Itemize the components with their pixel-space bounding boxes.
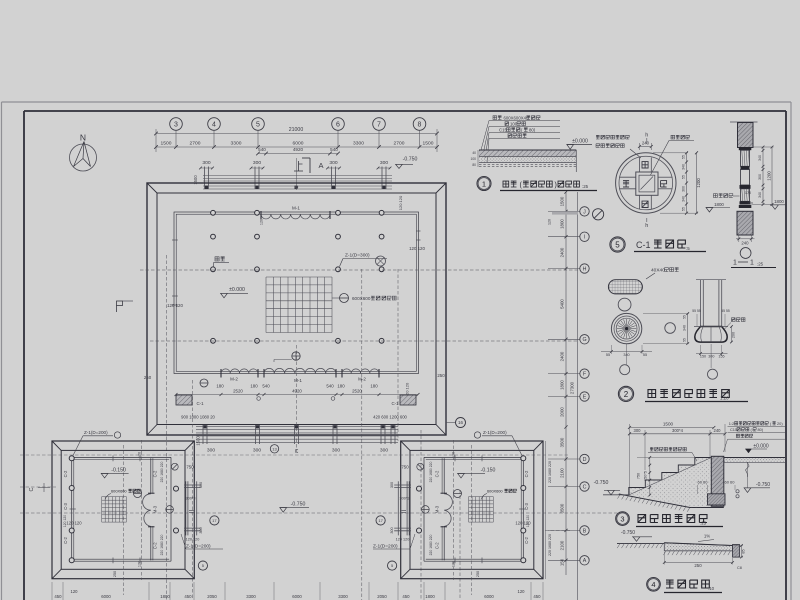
svg-text:120 120: 120 120 — [526, 515, 530, 527]
svg-text:250: 250 — [113, 571, 117, 577]
svg-text:3500: 3500 — [559, 503, 564, 513]
grid bubble E — [548, 396, 580, 398]
grid bubble H — [548, 268, 580, 270]
svg-text:220 1680 220: 220 1680 220 — [548, 461, 552, 483]
svg-text:5400: 5400 — [559, 299, 564, 309]
column 1-1 labels — [714, 194, 733, 198]
svg-text:300: 300 — [332, 448, 340, 454]
svg-text:-0.150: -0.150 — [111, 468, 126, 474]
column base label 柱础 — [215, 257, 225, 261]
svg-text:17: 17 — [212, 518, 217, 523]
wall section at grid J — [552, 211, 578, 214]
pavilion podium corner miters — [52, 441, 61, 450]
step detail dim row2 — [630, 433, 726, 435]
svg-text:450: 450 — [184, 594, 192, 599]
svg-text:1800: 1800 — [714, 202, 724, 207]
svg-text:120 120: 120 120 — [167, 303, 183, 308]
pavilion tag circle — [134, 490, 142, 498]
svg-text:540: 540 — [326, 384, 334, 389]
paving tag circle and label — [332, 297, 340, 299]
pavilion wall ticks — [481, 456, 483, 462]
svg-text:-0.750: -0.750 — [403, 157, 418, 163]
svg-text:250: 250 — [437, 373, 445, 378]
column 1-1 black band a — [739, 147, 752, 150]
svg-text:55: 55 — [683, 338, 687, 342]
pavilion podium outer edge — [52, 441, 194, 579]
svg-text:6000: 6000 — [101, 594, 111, 599]
apron dim 85 — [741, 546, 743, 558]
svg-text:60 60: 60 60 — [697, 480, 708, 485]
svg-text:±0.000: ±0.000 — [229, 287, 245, 293]
step platform strip — [724, 458, 785, 463]
pavilion tag circles outside — [417, 463, 424, 470]
svg-text:C: C — [295, 449, 299, 455]
pile symbol circle — [376, 256, 386, 266]
svg-text:150: 150 — [700, 355, 706, 359]
step ground left — [603, 494, 629, 496]
svg-text:C-3: C-3 — [524, 502, 529, 509]
tag circle 13 — [270, 445, 278, 453]
svg-text:2400: 2400 — [559, 351, 564, 361]
main hall wall outer line — [174, 212, 419, 374]
coin callout right text — [671, 135, 689, 139]
svg-text:17: 17 — [378, 518, 383, 523]
svg-text:55 55: 55 55 — [692, 309, 701, 313]
svg-text:55: 55 — [681, 175, 685, 179]
bottom door scallops M-1 center — [264, 368, 336, 373]
up symbol — [294, 170, 303, 172]
detail 1 title underline — [500, 190, 597, 192]
column 1-1 textured segment a — [741, 150, 750, 166]
svg-text:1200: 1200 — [696, 178, 701, 188]
svg-text:Z-1(D=200): Z-1(D=200) — [84, 430, 108, 435]
pavilion wall bottom — [72, 560, 171, 562]
coin inner circle — [619, 156, 673, 210]
pavilion podium outer edge — [401, 441, 543, 579]
svg-text:540: 540 — [330, 147, 338, 152]
svg-text:1: 1 — [733, 260, 737, 267]
svg-text:240: 240 — [714, 428, 722, 433]
detail 2 title text — [648, 390, 729, 398]
svg-text:340: 340 — [758, 155, 762, 161]
north arrow symbol — [70, 144, 97, 171]
bottom dim line — [176, 394, 418, 396]
svg-text:420 600 1200 600: 420 600 1200 600 — [373, 415, 407, 420]
grid bubble 16 right of podium — [446, 422, 456, 424]
bottom door scallops M-2 left — [221, 369, 258, 374]
column 1-1 top cap line — [730, 121, 758, 123]
grid bubble 5 — [252, 118, 265, 131]
coin vertical band — [639, 158, 641, 173]
grid bubble A — [548, 559, 580, 561]
pavilion tag circle — [454, 490, 462, 498]
svg-text:E: E — [583, 394, 587, 400]
detail 5 title bubble — [610, 237, 625, 252]
grid dash verticals main — [166, 255, 168, 600]
svg-text:6000: 6000 — [292, 594, 302, 599]
pavilion podium corner miters — [534, 441, 543, 450]
svg-text:120: 120 — [452, 561, 456, 567]
svg-text:27300: 27300 — [570, 381, 575, 394]
svg-text:M-1: M-1 — [294, 378, 302, 383]
svg-text:85: 85 — [742, 549, 746, 553]
stair nose diagonal — [629, 458, 712, 496]
svg-text:-0.750: -0.750 — [291, 501, 306, 507]
pavilion 2 (right) — [394, 440, 543, 595]
svg-text:250: 250 — [476, 571, 480, 577]
svg-text:): ) — [555, 182, 557, 189]
svg-text:240: 240 — [642, 141, 650, 146]
svg-text:G: G — [582, 337, 586, 343]
column 1-1 black band c — [740, 185, 751, 189]
svg-text:2050: 2050 — [207, 594, 217, 599]
dimension 540-4920-540 for door — [258, 153, 338, 155]
svg-text:450: 450 — [533, 594, 541, 599]
pavilion 1 (left) — [52, 440, 201, 595]
svg-text:300: 300 — [199, 482, 203, 488]
svg-text:1: 1 — [750, 260, 754, 267]
svg-text:D: D — [583, 457, 587, 463]
bottom extension lines — [51, 582, 53, 600]
svg-text::25: :25 — [757, 262, 764, 267]
svg-text:300: 300 — [758, 174, 762, 180]
svg-text:C-2: C-2 — [524, 470, 529, 477]
svg-text:4920: 4920 — [293, 147, 304, 152]
svg-text:80: 80 — [472, 163, 476, 167]
column 1-1 right dim chain — [762, 147, 764, 205]
svg-text:40X40: 40X40 — [651, 268, 665, 274]
svg-text:180: 180 — [250, 384, 258, 389]
svg-text:Z-1(D=200): Z-1(D=200) — [483, 430, 507, 435]
svg-text:900 1000 1080 20: 900 1000 1080 20 — [181, 415, 215, 420]
svg-text:2520: 2520 — [352, 389, 362, 394]
svg-text:540: 540 — [258, 147, 266, 152]
svg-text:4920: 4920 — [292, 389, 302, 394]
svg-text:Z-1(D=200): Z-1(D=200) — [186, 544, 211, 550]
svg-text:2000: 2000 — [559, 407, 564, 417]
pavilion door wall right — [150, 458, 152, 494]
svg-text:13: 13 — [272, 447, 277, 452]
center axis line of main hall — [296, 158, 298, 190]
svg-text:300: 300 — [253, 160, 261, 166]
svg-text:6: 6 — [336, 122, 340, 129]
grid bubble C — [548, 486, 580, 488]
svg-text:2050: 2050 — [377, 594, 387, 599]
svg-text:300: 300 — [202, 160, 210, 166]
svg-text:120 120: 120 120 — [63, 515, 67, 527]
svg-text:6000: 6000 — [293, 141, 304, 147]
svg-text:8: 8 — [418, 122, 422, 129]
svg-text:1200: 1200 — [767, 171, 772, 181]
svg-text:1800: 1800 — [160, 594, 170, 599]
detail 5 title underline — [634, 251, 706, 253]
pavilion colonnade line right — [170, 457, 172, 561]
pavilion column circles — [521, 456, 526, 461]
svg-text:J: J — [583, 209, 586, 215]
base dim below 150 300 155 — [696, 353, 728, 355]
svg-text:750: 750 — [401, 465, 409, 470]
svg-text:450: 450 — [54, 594, 62, 599]
stair steps — [629, 458, 712, 496]
svg-text:300: 300 — [390, 527, 394, 533]
svg-text:-0.750: -0.750 — [756, 482, 770, 488]
svg-text:300*4: 300*4 — [672, 428, 684, 433]
svg-text:3300: 3300 — [353, 141, 364, 147]
pavilion wall top — [424, 456, 523, 458]
step footing hatch — [708, 494, 726, 505]
svg-text:2700: 2700 — [394, 141, 405, 147]
bottom railing post caps — [204, 425, 207, 428]
svg-text:1:2: 1:2 — [729, 421, 734, 426]
svg-text:55: 55 — [683, 315, 687, 319]
circle section below — [618, 298, 631, 311]
svg-text:100: 100 — [470, 157, 476, 161]
floor section strip — [479, 150, 576, 157]
grid bubble I — [548, 236, 580, 238]
svg-text:300: 300 — [380, 448, 388, 454]
column 1-1 bubble — [740, 248, 751, 259]
svg-text:-0.150: -0.150 — [481, 468, 496, 474]
door symbol circle bottom — [292, 352, 300, 360]
horizontal grid dashes lower area — [20, 486, 56, 488]
svg-text:H: H — [583, 266, 587, 272]
svg-text:80): 80) — [758, 427, 764, 432]
svg-text:2100: 2100 — [559, 468, 564, 478]
pavilion wall ticks — [112, 456, 114, 462]
pavilion level -0.150 — [458, 473, 465, 478]
svg-text:450: 450 — [402, 594, 410, 599]
detail 1 title text — [503, 181, 517, 187]
column 1-1 textured segment b — [741, 189, 750, 202]
svg-text:300*3: 300*3 — [186, 497, 196, 501]
svg-text:C-2: C-2 — [524, 536, 529, 543]
grid bubble 3 — [170, 118, 183, 131]
svg-text:C: C — [583, 484, 587, 490]
wall break ticks left wall — [172, 295, 178, 297]
door M-1 top scallops — [261, 214, 330, 219]
step level ±0.000 — [745, 448, 767, 450]
svg-text:180: 180 — [337, 384, 345, 389]
bubble below radial section — [620, 365, 630, 375]
tag circle 15 — [200, 379, 208, 387]
main hall podium outer edge — [147, 183, 446, 435]
svg-text:M-2: M-2 — [230, 377, 238, 382]
overall dimension 21000 — [156, 133, 437, 135]
corner pier C-1 left — [176, 395, 192, 405]
stair base — [619, 494, 724, 508]
step small circles right — [736, 490, 739, 493]
svg-text:120 120: 120 120 — [409, 246, 425, 251]
svg-text:4: 4 — [651, 580, 655, 589]
svg-text:120 120: 120 120 — [186, 538, 200, 542]
main hall podium inner edge — [157, 193, 436, 425]
svg-text:300: 300 — [329, 160, 337, 166]
slashed bubble near J — [593, 209, 604, 220]
railing post caps — [205, 186, 208, 189]
section marker A top — [302, 157, 310, 159]
svg-text:220 1680 220: 220 1680 220 — [429, 462, 433, 483]
svg-text:120 120: 120 120 — [396, 538, 410, 542]
svg-text:3300: 3300 — [231, 141, 242, 147]
svg-text:300: 300 — [380, 160, 388, 166]
step level -0.750 left — [608, 490, 615, 495]
pavilion paving grid — [492, 497, 494, 522]
svg-text:C8: C8 — [737, 566, 742, 570]
plain circle section — [665, 323, 676, 334]
svg-text:h: h — [645, 133, 648, 139]
column 1-1 level 1800 left — [706, 207, 730, 209]
svg-text:600X600X40: 600X600X40 — [504, 116, 529, 121]
column 1-1 black band d — [740, 201, 751, 204]
column 1-1 bottom block — [737, 211, 753, 235]
svg-text:1800: 1800 — [425, 594, 435, 599]
pavilion walkway right — [185, 481, 187, 535]
detail 4 title bubble — [647, 578, 661, 592]
pavilion podium inner edge — [61, 450, 185, 569]
step level -0.750 right — [747, 462, 749, 488]
svg-text:C-2: C-2 — [63, 536, 68, 543]
svg-text:C-1: C-1 — [196, 401, 204, 406]
svg-text:C: C — [29, 487, 35, 491]
step granite label — [650, 447, 686, 451]
step wall hatched — [711, 456, 724, 506]
svg-text:1500: 1500 — [423, 141, 434, 147]
svg-text:M-2: M-2 — [358, 377, 366, 382]
svg-text:110: 110 — [747, 202, 753, 206]
svg-text:5: 5 — [615, 241, 620, 250]
svg-text:1500: 1500 — [161, 141, 172, 147]
svg-text:300: 300 — [634, 428, 642, 433]
svg-text:C-3: C-3 — [63, 502, 68, 509]
svg-text:120: 120 — [71, 589, 79, 594]
svg-text:170: 170 — [745, 191, 751, 195]
step detail top dim 1500 — [630, 427, 714, 429]
detail 2 title underline — [645, 401, 748, 403]
svg-text:55: 55 — [681, 155, 685, 159]
floor label underlines — [489, 120, 560, 122]
corner pier C-1 right — [400, 395, 416, 405]
coin outer circle — [616, 153, 676, 213]
pavilion paving grid — [101, 497, 103, 522]
main hall wall inner line — [176, 214, 416, 371]
svg-text:80): 80) — [529, 128, 536, 133]
pavilion column circles — [69, 456, 74, 461]
pavilion door wall right — [443, 458, 445, 494]
coin characters — [642, 162, 648, 168]
svg-text:3500: 3500 — [559, 437, 564, 447]
wall break ticks right wall — [416, 230, 421, 232]
grid dash line G horizontal — [150, 340, 578, 342]
svg-text::5: :5 — [686, 246, 690, 251]
svg-text:1500: 1500 — [196, 436, 201, 446]
svg-text::25: :25 — [582, 184, 589, 189]
svg-text:3: 3 — [620, 515, 624, 524]
coin horizontal band — [619, 176, 636, 178]
svg-text:C15: C15 — [499, 128, 507, 133]
grid bubble 8 — [413, 118, 426, 131]
detail 4 title text — [666, 580, 709, 588]
svg-text:340: 340 — [681, 164, 685, 170]
pavilion colonnade line right — [423, 457, 425, 561]
svg-text:180: 180 — [216, 384, 224, 389]
base dim 200 — [731, 327, 733, 343]
coin right dim chain — [686, 153, 688, 213]
svg-text:750: 750 — [637, 473, 641, 479]
svg-text:220 1680 220: 220 1680 220 — [160, 535, 164, 556]
svg-text:340: 340 — [681, 196, 685, 202]
svg-text:2700: 2700 — [190, 141, 201, 147]
column 1-1 bottom dim 240 — [736, 238, 755, 240]
radial column section — [611, 313, 641, 343]
svg-text:750: 750 — [186, 465, 194, 470]
apron dim 250 — [664, 562, 732, 564]
coin dim 240 — [640, 146, 652, 148]
grid bubble J — [548, 210, 580, 212]
svg-text:250: 250 — [694, 563, 702, 568]
svg-text:120 120: 120 120 — [398, 195, 403, 210]
svg-text:120: 120 — [138, 561, 142, 567]
floor section side ticks — [477, 150, 479, 167]
svg-text:5: 5 — [256, 122, 260, 129]
svg-text:55: 55 — [606, 353, 610, 357]
pavilion podium inner edge — [410, 450, 534, 569]
svg-text:M-1: M-1 — [292, 206, 300, 211]
apron under hatch — [663, 551, 730, 555]
detail 1 title bubble — [477, 177, 491, 191]
svg-text:C-2: C-2 — [153, 470, 158, 477]
stair mass stipple — [629, 458, 712, 508]
svg-text:120: 120 — [518, 589, 526, 594]
apron strip — [664, 543, 732, 551]
svg-text:340: 340 — [758, 192, 762, 198]
pavilion dashed axes — [123, 445, 125, 595]
pavilion wall top — [72, 456, 171, 458]
svg-text:240: 240 — [741, 241, 749, 246]
detail 4 title underline — [664, 592, 722, 594]
svg-text:-0.750: -0.750 — [594, 480, 609, 486]
svg-text:1: 1 — [482, 179, 486, 188]
svg-text:540: 540 — [262, 384, 270, 389]
column circles of main hall — [211, 210, 216, 215]
svg-text:1%: 1% — [704, 534, 710, 539]
svg-text:N: N — [80, 133, 86, 143]
coin center square — [636, 172, 658, 195]
svg-text:200: 200 — [732, 332, 736, 338]
svg-text:55: 55 — [681, 207, 685, 211]
bottom door scallops M-2 right — [342, 369, 379, 374]
grid dash line H horizontal — [140, 269, 578, 271]
apron ground line left — [617, 543, 664, 545]
radial section dim below — [601, 351, 652, 353]
column 1-1 plain segment — [741, 170, 750, 186]
svg-text:h: h — [645, 223, 648, 229]
pavilion level -0.150 — [101, 473, 108, 478]
grid bubble B — [548, 529, 580, 531]
svg-text:1800: 1800 — [559, 380, 564, 390]
svg-text:340: 340 — [683, 325, 687, 331]
svg-text:A: A — [583, 558, 587, 564]
svg-text:B: B — [583, 528, 587, 534]
column base profile — [695, 327, 727, 343]
svg-text:120: 120 — [260, 219, 264, 225]
level ±0.000 floor section — [567, 144, 592, 146]
svg-text:55 55: 55 55 — [721, 309, 730, 313]
svg-text:20): 20) — [777, 421, 783, 426]
svg-text:2400: 2400 — [559, 247, 564, 257]
vertical grid line with letters — [565, 192, 567, 575]
svg-text:4: 4 — [212, 122, 216, 129]
pavilion door M-3 arcs — [444, 494, 452, 527]
